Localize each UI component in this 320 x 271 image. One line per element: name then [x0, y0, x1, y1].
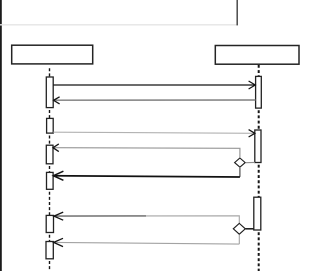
frame left border [0, 0, 2, 271]
message M6 line light segment with bend [146, 216, 239, 223]
diamond D1 [235, 158, 246, 167]
message M8 arrowhead [54, 238, 63, 246]
message M4 line with bend [53, 148, 240, 158]
frame top vertical tick [236, 0, 238, 25]
activation bar L4 [47, 172, 54, 189]
activation bar R1 [256, 76, 262, 108]
message M5 arrowhead [53, 171, 63, 180]
object box right [215, 46, 299, 65]
activation bar R2 [255, 130, 261, 163]
connector D1 to bar R2 [246, 161, 255, 163]
activation bar L2 [47, 118, 54, 133]
message M1 arrowhead [249, 81, 256, 89]
message M5 reply line (bold) [53, 176, 240, 177]
connector D2 down [238, 235, 240, 245]
message M1 call line [53, 84, 255, 86]
message M3 call line [53, 132, 255, 133]
frame top light rule [0, 24, 238, 26]
activation bar R3 [254, 197, 261, 230]
connector D2 to bar R3 (bold) [246, 228, 254, 230]
message M2 arrowhead [54, 97, 60, 104]
activation bar L6 [46, 242, 53, 259]
activation bar L3 [46, 145, 53, 164]
message M6 arrowhead [54, 212, 63, 220]
message M8 return line [54, 242, 240, 244]
activation bar L1 [46, 77, 53, 108]
connector D1 down [239, 168, 241, 177]
lifeline left (dashed) [49, 68, 51, 271]
lifeline right (dashed, bold) [258, 65, 260, 271]
message M3 arrowhead [249, 130, 255, 137]
diamond D2 [233, 223, 245, 234]
activation bar L5 [46, 215, 53, 232]
message M2 return line [54, 99, 256, 101]
object box left [12, 45, 93, 64]
message M4 arrowhead [53, 144, 59, 152]
message M6 line with bend [54, 215, 146, 217]
